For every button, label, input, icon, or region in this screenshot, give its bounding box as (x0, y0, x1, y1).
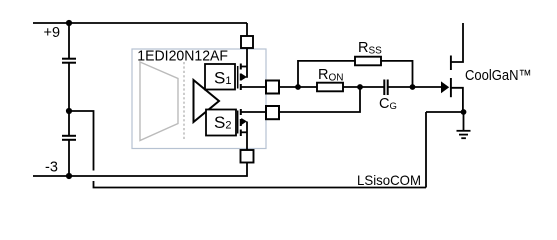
node junction -3 rail (66, 173, 72, 179)
label +9 (44, 25, 61, 41)
wire +9 rail into VDD pin (246, 23, 248, 36)
node junction cap midpoint (66, 108, 72, 114)
wire LSisoCOM bottom run (crossover hop below -3 rail) (94, 181, 427, 188)
label RON (318, 67, 343, 84)
label CG (379, 96, 397, 112)
transistor Q1 CoolGaN HEMT (441, 23, 463, 112)
op-amp U1 gate driver 1EDI20N12AF outline box (132, 49, 266, 149)
pin box OUT+ (266, 81, 279, 94)
output buffer triangle (194, 80, 220, 122)
wire OUT+ / gate line (S1 source to CG) (241, 86, 385, 88)
capacitor C1 (bulk cap +9) (62, 59, 76, 63)
transistor QL driver low-side (gate bar, channel, arrow, leads) (238, 109, 247, 150)
wire left rail lower segment (68, 140, 70, 176)
wire left rail upper segment (68, 23, 70, 58)
wire midpoint branch to LSisoCOM (69, 111, 94, 171)
capacitor C2 (bulk cap -3) (62, 136, 76, 140)
input-side trapezoid (gray) (140, 62, 178, 141)
wire LSisoCOM riser (425, 112, 427, 188)
pin box VDD (top) (241, 36, 253, 48)
wire OUT- line (S2 drain to riser) (241, 87, 361, 112)
wire RSS branch (298, 61, 413, 87)
label 1EDI20N12AF (137, 47, 228, 64)
node junction gate line / RSS branch left (295, 84, 301, 90)
wire -3 rail (33, 163, 247, 177)
svg-text:-3: -3 (45, 159, 58, 175)
node junction +9 rail to bulk caps (66, 20, 72, 26)
svg-text:CoolGaN™: CoolGaN™ (465, 67, 532, 84)
node junction OUT- riser on gate line (357, 84, 363, 90)
box S2 pin (206, 110, 236, 136)
svg-text:+9: +9 (44, 25, 61, 41)
transistor QH driver high-side (gate bar, channel, arrow, leads) (238, 48, 247, 90)
wire +9 rail (33, 22, 247, 24)
isolation barrier dashed line (183, 62, 185, 140)
wire CG to gate arrow (388, 86, 441, 88)
resistor RSS (355, 57, 381, 66)
resistor RON (317, 83, 343, 92)
pin box OUT- (266, 106, 279, 119)
label LSisoCOM (357, 172, 421, 188)
label RSS (358, 40, 382, 57)
capacitor CG (384, 80, 387, 96)
svg-text:1EDI20N12AF: 1EDI20N12AF (137, 47, 228, 64)
label CoolGaN (TM) (465, 67, 532, 84)
wire source rail (426, 111, 464, 113)
wire left rail middle segment (68, 63, 70, 135)
box S1 pin (205, 64, 235, 90)
pin box VSS (bottom) (241, 150, 254, 163)
label -3 (45, 159, 58, 175)
svg-text:LSisoCOM: LSisoCOM (357, 172, 421, 188)
node junction RSS branch right (410, 84, 416, 90)
node junction source / ground (461, 109, 467, 115)
ground (457, 112, 471, 138)
